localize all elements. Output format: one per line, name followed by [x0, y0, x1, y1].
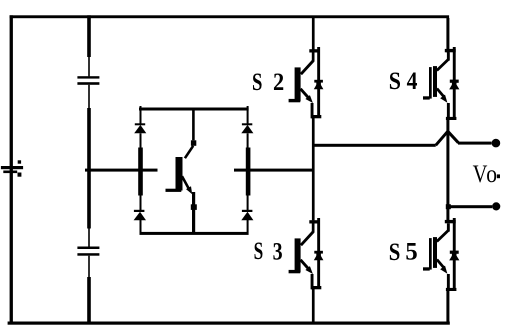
diode D-S3 (anti-parallel) — [314, 251, 324, 260]
node junction S4/S5 leg — [446, 204, 451, 209]
wire bottom rail — [8, 322, 450, 325]
IGBT S3 — [289, 218, 322, 289]
svg-text:2: 2 — [273, 69, 284, 96]
capacitor C1 — [77, 76, 99, 85]
wire left source branch — [10, 15, 13, 324]
wire mid right (bridge to S2/S3 leg) — [234, 169, 313, 172]
wire S4/S5 phase leg vertical — [446, 18, 449, 323]
wire bridge bottom rail — [140, 232, 249, 235]
transistor S1 (bidirectional switch, centre of bridge) — [166, 111, 197, 233]
label S4 — [389, 68, 418, 95]
wire output mid (S2/S3 node to crossover) — [313, 144, 436, 147]
svg-text:o: o — [486, 161, 497, 188]
wire top output lead — [458, 142, 492, 145]
diode D3 (bridge top-right) — [241, 123, 253, 133]
diode D-S4 (anti-parallel) — [449, 80, 459, 90]
diode D-S2 (anti-parallel) — [314, 80, 324, 90]
wire mid left (cap midpoint to bridge) — [85, 169, 158, 172]
wire bridge right leg — [246, 106, 251, 232]
wire bridge left leg — [138, 106, 143, 232]
wire capacitor branch — [87, 15, 91, 324]
svg-text:S: S — [252, 69, 262, 96]
svg-text:4: 4 — [407, 68, 418, 95]
IGBT S2 — [289, 47, 322, 118]
diode D1 (bridge top-left) — [134, 123, 146, 133]
IGBT S5 — [423, 218, 456, 291]
wire top rail — [10, 15, 450, 18]
svg-text:V: V — [473, 161, 488, 188]
wire bottom output lead — [448, 205, 493, 208]
svg-text:S: S — [254, 238, 264, 265]
svg-text:3: 3 — [273, 238, 283, 265]
node output terminal - — [492, 202, 500, 210]
wire bridge top rail — [139, 108, 249, 111]
label S2 — [252, 69, 284, 96]
diode D2 (bridge bottom-left) — [134, 210, 146, 220]
wire S2/S3 phase leg vertical — [312, 18, 315, 323]
diode D-S5 (anti-parallel) — [449, 251, 459, 261]
IGBT S4 — [423, 47, 456, 120]
label S5 — [389, 238, 418, 266]
label Vo — [473, 161, 500, 188]
label S3 — [254, 238, 283, 265]
node output terminal + — [492, 139, 501, 148]
svg-text:S: S — [389, 239, 401, 266]
diode D4 (bridge bottom-right) — [241, 210, 253, 220]
DC source E (battery) — [1, 160, 23, 176]
wire crossover hop at S4/S5 node — [436, 131, 459, 145]
svg-text:S: S — [389, 68, 401, 95]
svg-text:5: 5 — [405, 238, 417, 265]
capacitor C2 — [77, 247, 99, 256]
